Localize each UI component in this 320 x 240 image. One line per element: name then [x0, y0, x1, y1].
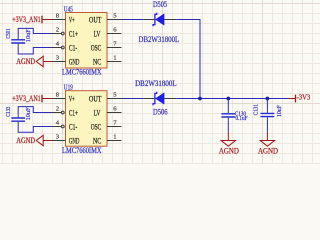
svg-text:0.1uF: 0.1uF [235, 115, 247, 122]
svg-text:OSC: OSC [91, 122, 102, 131]
svg-text:AGND: AGND [16, 136, 35, 145]
pin 4 C1- of U45 [52, 47, 62, 49]
svg-text:+3V3_AN1: +3V3_AN1 [12, 15, 41, 24]
svg-text:C1+: C1+ [69, 29, 78, 38]
AGND lead wire to GND pin [43, 61, 51, 63]
svg-text:C1-: C1- [69, 122, 78, 131]
capacitor C130 leads [227, 111, 229, 121]
svg-text:LV: LV [94, 29, 101, 38]
wire C133 bottom plate to C1- pin [18, 125, 51, 133]
pin 6 LV of U19 [107, 112, 122, 114]
pin 4 C1- of U19 [52, 126, 62, 128]
svg-text:D506: D506 [153, 108, 168, 117]
junction D505/rail [198, 97, 202, 101]
pin 3 GND of U19 [52, 140, 66, 142]
wire C501 top plate to C1+ pin [18, 28, 51, 36]
svg-text:-3V3: -3V3 [297, 93, 311, 102]
AGND triangle symbol [260, 141, 274, 147]
svg-text:C1+: C1+ [69, 108, 78, 117]
svg-text:AGND: AGND [16, 57, 35, 66]
diode D505 anode triangle [156, 14, 165, 25]
svg-text:10uF: 10uF [276, 105, 283, 117]
AGND port lead [227, 132, 229, 141]
pin 7 OSC of U45 [107, 47, 122, 49]
power port +3V3_AN1 bar [41, 16, 43, 24]
capacitor C501 leads [17, 37, 19, 47]
svg-text:C133: C133 [5, 106, 12, 117]
svg-text:10uF: 10uF [25, 29, 32, 42]
pin 2 C1+ of U19 [52, 112, 62, 114]
svg-text:DB2W31800L: DB2W31800L [139, 35, 180, 44]
capacitor C131 leads [266, 110, 268, 120]
svg-text:2: 2 [56, 106, 59, 113]
svg-text:NC: NC [93, 57, 102, 66]
power port -3V3 lead wire [288, 98, 296, 100]
ground AGND triangle symbol (left) [36, 56, 43, 66]
wire D505 to -3V3 rail [176, 20, 200, 99]
-3V3 rail wire [176, 98, 288, 100]
svg-text:2: 2 [56, 27, 59, 34]
wire U19 OUT to D506 [122, 98, 144, 100]
IC U19 body [66, 91, 108, 147]
svg-text:V+: V+ [69, 15, 75, 24]
svg-text:AGND: AGND [219, 146, 239, 155]
svg-text:LV: LV [94, 108, 101, 117]
diode D505 pin leads [144, 19, 177, 21]
svg-text:OSC: OSC [91, 43, 102, 52]
svg-text:LMC7660IMX: LMC7660IMX [62, 68, 102, 77]
diode D505 schottky cathode bar [153, 13, 157, 26]
capacitor C131 plates [261, 113, 275, 116]
wire rail to C131 [266, 99, 268, 111]
wire U45 OUT to D505 [122, 19, 144, 21]
svg-text:LMC7660IMX: LMC7660IMX [62, 146, 102, 155]
junction C131 tap [266, 97, 270, 101]
AGND lead wire to GND pin [43, 140, 51, 142]
power port +3V3_AN1 bar [41, 95, 43, 103]
power port +3V3_AN1 lead wire [42, 98, 52, 100]
capacitor C130 plates [221, 114, 235, 117]
svg-text:U45: U45 [64, 5, 73, 14]
svg-text:1: 1 [113, 134, 116, 141]
svg-text:OUT: OUT [89, 15, 101, 24]
svg-text:GND: GND [69, 136, 80, 145]
capacitor C133 plates [11, 118, 25, 121]
svg-text:C501: C501 [5, 28, 12, 38]
svg-text:AGND: AGND [258, 146, 278, 155]
svg-text:1: 1 [113, 55, 116, 62]
power port -3V3 bar [295, 95, 297, 103]
junction C130 tap [226, 97, 230, 101]
svg-text:C131: C131 [253, 104, 260, 115]
diode D506 pin leads [144, 98, 177, 100]
wire C131 to AGND [266, 120, 268, 132]
svg-text:10uF: 10uF [25, 107, 32, 120]
capacitor C501 plates [11, 40, 25, 43]
capacitor C133 leads [17, 115, 19, 125]
wire C501 bottom plate to C1- pin [18, 46, 51, 54]
svg-text:C1-: C1- [69, 43, 78, 52]
pin 1 NC of U19 [107, 140, 122, 142]
svg-text:V+: V+ [69, 94, 75, 103]
pin 8 V+ of U19 [52, 98, 66, 100]
power port +3V3_AN1 lead wire [42, 19, 52, 21]
pin 1 NC of U45 [107, 61, 122, 63]
ground AGND triangle symbol (left) [36, 135, 43, 145]
pin 6 LV of U45 [107, 33, 122, 35]
wire C130 to AGND [227, 120, 229, 132]
AGND port lead [266, 132, 268, 141]
pin 8 V+ of U45 [52, 19, 66, 21]
svg-text:D505: D505 [153, 0, 167, 9]
pin 3 GND of U45 [52, 61, 66, 63]
svg-text:GND: GND [69, 57, 80, 66]
diode D506 anode triangle [156, 93, 165, 104]
svg-text:+3V3_AN1: +3V3_AN1 [12, 94, 41, 103]
pin 5 OUT of U45 [107, 19, 122, 21]
pin 7 OSC of U19 [107, 126, 122, 128]
svg-text:U19: U19 [64, 83, 73, 92]
wire C133 top plate to C1+ pin [18, 107, 51, 115]
diode D506 schottky cathode bar [153, 92, 157, 105]
pin 5 OUT of U19 [107, 98, 122, 100]
svg-text:NC: NC [93, 136, 102, 145]
IC U45 body [66, 13, 108, 69]
wire rail to C130 [227, 99, 229, 111]
svg-text:OUT: OUT [89, 94, 101, 103]
AGND triangle symbol [221, 141, 235, 147]
svg-text:DB2W31800L: DB2W31800L [135, 79, 177, 88]
pin 2 C1+ of U45 [52, 33, 62, 35]
